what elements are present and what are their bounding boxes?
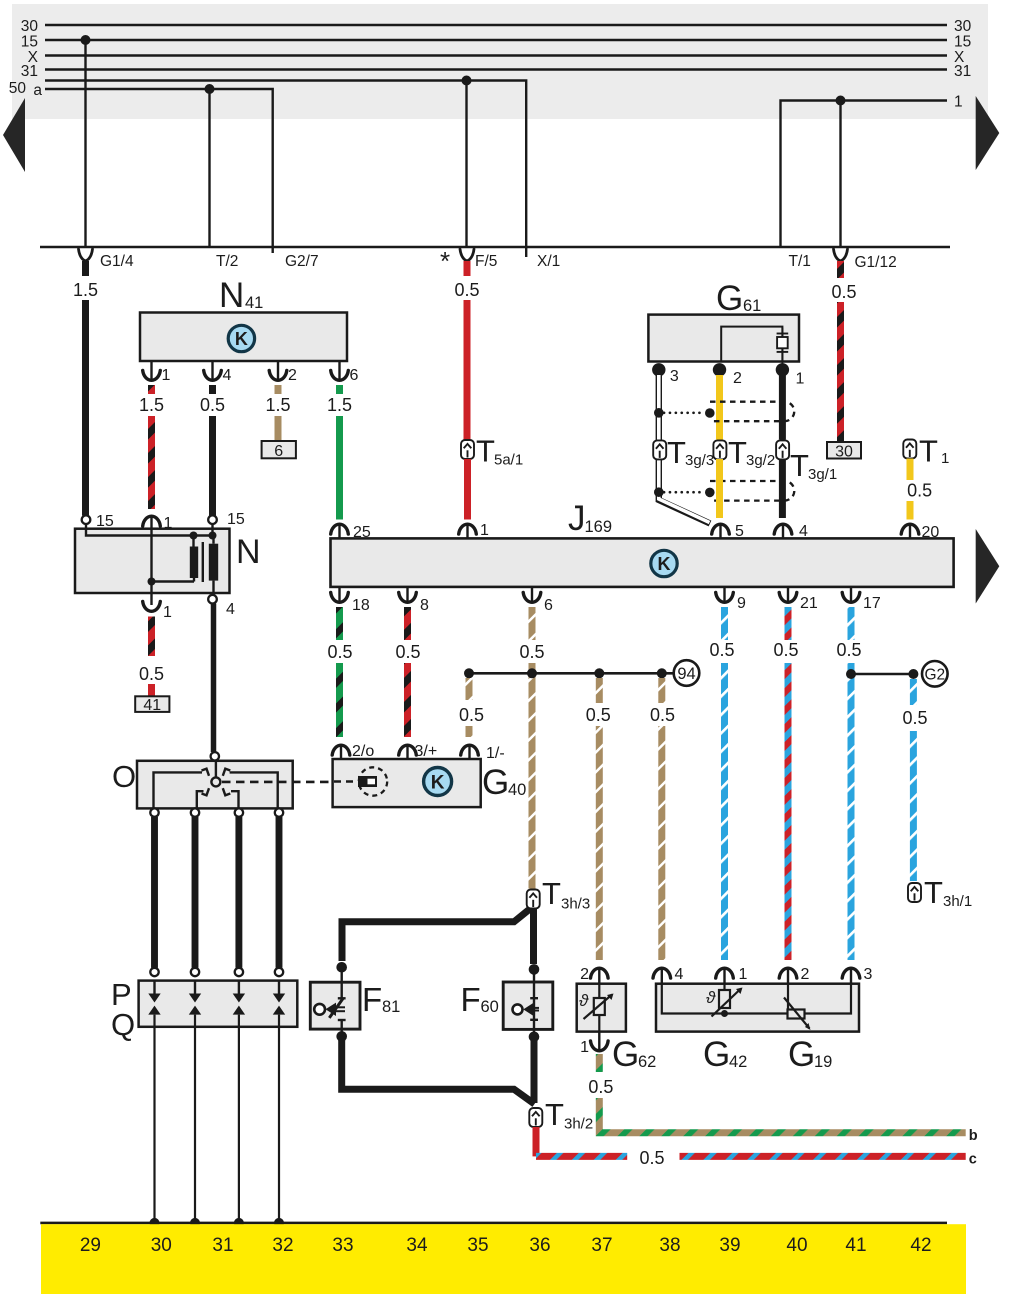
svg-text:0.5: 0.5 — [831, 282, 856, 302]
svg-text:J: J — [568, 499, 586, 538]
node on bus 1 — [836, 96, 846, 106]
terminal G1/4 — [79, 249, 93, 261]
svg-text:T: T — [924, 875, 943, 910]
O top terminal — [211, 752, 219, 760]
J169 pin 8 — [399, 592, 417, 602]
svg-text:c: c — [969, 1152, 977, 1168]
svg-text:15: 15 — [954, 34, 971, 51]
wire rd 0.5 F/5 to T5a/1 — [464, 261, 471, 276]
svg-text:3h/2: 3h/2 — [564, 1116, 593, 1133]
svg-text:3h/1: 3h/1 — [943, 893, 972, 910]
svg-text:X/1: X/1 — [537, 253, 560, 270]
ground 30 box — [827, 442, 861, 459]
wire gn/bk 0.5 J169.18 to G40 — [336, 607, 343, 640]
earth nodes — [150, 1218, 160, 1228]
svg-text:1.5: 1.5 — [139, 395, 164, 415]
svg-text:0.5: 0.5 — [639, 1148, 664, 1168]
node below F60 — [529, 1032, 540, 1043]
wire rd 0.5 T5a/1 to J169 pin1 — [464, 459, 471, 520]
G61 piezo element — [777, 328, 789, 364]
svg-text:3/+: 3/+ — [415, 743, 438, 760]
N terminal 15 left — [82, 515, 91, 524]
svg-text:a: a — [33, 82, 42, 99]
svg-text:0.5: 0.5 — [459, 705, 484, 725]
sensor bus node line — [469, 672, 674, 675]
svg-text:0.5: 0.5 — [519, 642, 544, 662]
svg-text:6: 6 — [544, 597, 553, 614]
svg-text:1: 1 — [739, 966, 748, 983]
svg-text:T: T — [667, 435, 686, 470]
terminal G1/12 — [834, 249, 848, 261]
svg-text:0.5: 0.5 — [454, 280, 479, 300]
svg-text:5: 5 — [735, 523, 744, 540]
svg-text:3h/3: 3h/3 — [561, 896, 590, 913]
svg-text:0.5: 0.5 — [650, 705, 675, 725]
wire rd/bk 0.5 J169.8 to G40 — [404, 607, 411, 640]
G61 pin 2 node — [713, 363, 726, 376]
track numbers 29-42 — [80, 1235, 932, 1256]
node on wire 17 — [846, 669, 856, 679]
wire G1/12 drop — [839, 101, 841, 248]
svg-text:N: N — [236, 533, 261, 571]
wire bk F60 to T3h/2 — [531, 1038, 538, 1103]
svg-text:41: 41 — [845, 1235, 866, 1256]
shield ring upper — [710, 402, 794, 422]
svg-text:6: 6 — [350, 367, 359, 384]
wire bl/wh 0.5 node to T3h/1 — [910, 679, 917, 705]
switch F81 — [310, 982, 360, 1029]
wire bk F81 loop bottom — [342, 1038, 535, 1104]
svg-text:T/1: T/1 — [789, 253, 811, 270]
svg-text:40: 40 — [508, 781, 526, 799]
svg-text:38: 38 — [659, 1235, 680, 1256]
svg-text:20: 20 — [922, 524, 940, 541]
G42 pin 1 — [716, 968, 734, 978]
svg-text:15: 15 — [227, 511, 245, 528]
wire bk 0.5 N41.4 to N — [209, 416, 216, 516]
svg-text:31: 31 — [212, 1235, 233, 1256]
sensor G62 — [577, 984, 626, 1032]
svg-text:0.5: 0.5 — [773, 640, 798, 660]
svg-text:15: 15 — [21, 34, 38, 51]
wire tn 1.5 N41.2 to 6 — [275, 416, 282, 440]
G42 internal — [662, 984, 851, 1029]
bus 1 — [781, 101, 948, 248]
left page arrow — [3, 98, 25, 172]
node on bus a — [205, 84, 215, 94]
svg-text:G: G — [703, 1035, 730, 1074]
J169 pin 18 — [331, 592, 349, 602]
G62 pin 1 — [591, 1041, 609, 1051]
wire rd T3h/2 to c — [533, 1127, 540, 1156]
O cap contacts — [202, 769, 231, 796]
ignition leads O to P — [151, 817, 158, 968]
svg-text:F: F — [461, 981, 481, 1018]
svg-text:34: 34 — [406, 1235, 428, 1256]
svg-text:1.5: 1.5 — [73, 280, 98, 300]
G19 pin 2 — [779, 968, 797, 978]
connector T3h/2 — [529, 1108, 542, 1127]
ground 6 box — [262, 441, 296, 458]
svg-text:61: 61 — [743, 297, 761, 315]
svg-text:0.5: 0.5 — [709, 640, 734, 660]
bus 30 — [45, 24, 947, 27]
wire ye T1 to J169 pin20 — [907, 501, 914, 520]
G40 pin 1/- — [461, 745, 479, 755]
switch F60 — [503, 982, 553, 1029]
svg-text:b: b — [969, 1128, 978, 1144]
svg-text:9: 9 — [737, 595, 746, 612]
svg-text:15: 15 — [96, 513, 114, 530]
svg-text:39: 39 — [719, 1235, 740, 1256]
svg-text:0.5: 0.5 — [907, 481, 932, 501]
G62 thermistor — [584, 984, 613, 1032]
wire G1/4 drop — [84, 40, 86, 247]
svg-text:50: 50 — [9, 80, 27, 97]
connector T1 — [903, 440, 916, 459]
svg-text:ϑ: ϑ — [706, 988, 716, 1007]
wire bl/rd 0.5 J169.21 to G19 — [785, 607, 792, 640]
wire rd/bk 0.5 G1/12 to 30 — [837, 261, 844, 278]
svg-text:19: 19 — [814, 1053, 832, 1071]
svg-text:3g/2: 3g/2 — [746, 452, 775, 469]
right page arrow mid — [976, 529, 1000, 604]
svg-text:81: 81 — [382, 998, 400, 1016]
P terminals — [150, 968, 158, 976]
svg-text:5a/1: 5a/1 — [494, 452, 523, 469]
svg-text:0.5: 0.5 — [139, 664, 164, 684]
svg-text:G: G — [612, 1035, 639, 1074]
svg-text:94: 94 — [677, 665, 695, 683]
svg-text:G2: G2 — [924, 667, 945, 684]
wire tn/wh 0.5 J169.6 to T3h/3 — [529, 607, 536, 640]
wire ye G61.2 upper — [716, 375, 723, 440]
wire F/5 drop — [465, 81, 467, 248]
node on bus 15 — [81, 35, 91, 45]
svg-text:G: G — [482, 763, 509, 802]
svg-text:42: 42 — [729, 1053, 747, 1071]
svg-text:2: 2 — [288, 367, 297, 384]
G40 pin 2/o — [332, 745, 350, 755]
svg-text:0.5: 0.5 — [327, 642, 352, 662]
N terminal 4 bottom — [208, 595, 217, 604]
svg-text:1: 1 — [796, 371, 805, 388]
N41 pin 1 — [150, 361, 152, 381]
N41 pin 6 — [338, 361, 340, 381]
G40 hall element — [359, 767, 387, 795]
top grey bus band — [12, 4, 988, 119]
yellow track band — [41, 1224, 966, 1294]
svg-text:30: 30 — [954, 18, 972, 35]
svg-text:N: N — [219, 276, 244, 315]
svg-text:0.5: 0.5 — [588, 1077, 613, 1097]
wire ye T1 upper — [907, 459, 914, 481]
ground 41 box — [135, 696, 169, 712]
wire tn/wh 0.5 node to G42 — [658, 678, 665, 703]
svg-text:G: G — [716, 279, 743, 318]
wire b tn/gn — [599, 1098, 965, 1133]
svg-text:30: 30 — [21, 18, 39, 35]
svg-text:41: 41 — [245, 294, 263, 312]
svg-text:T: T — [790, 448, 809, 483]
svg-text:33: 33 — [332, 1235, 353, 1256]
svg-text:*: * — [440, 246, 450, 276]
wire rd/bk 0.5 N.1 to 41 — [148, 617, 155, 657]
svg-text:Q: Q — [111, 1007, 135, 1042]
svg-text:T: T — [919, 434, 938, 469]
O bottom terminals — [150, 808, 158, 816]
wire bk G61.1 lower — [779, 459, 786, 518]
svg-text:25: 25 — [353, 524, 371, 541]
svg-text:1.5: 1.5 — [265, 395, 290, 415]
svg-text:1: 1 — [163, 604, 172, 621]
J169 pin 20 — [901, 524, 919, 534]
hall sender G40 — [333, 759, 481, 807]
N secondary winding — [209, 544, 218, 581]
svg-text:40: 40 — [786, 1235, 807, 1256]
svg-text:42: 42 — [910, 1235, 931, 1256]
G42 pin 4 — [653, 968, 671, 978]
svg-text:1: 1 — [941, 450, 949, 467]
svg-text:37: 37 — [591, 1235, 612, 1256]
J169 pin 4 — [774, 524, 792, 534]
svg-text:2: 2 — [801, 966, 810, 983]
connector T5a/1 — [461, 440, 474, 459]
dashed link O to G40 — [222, 781, 357, 784]
svg-text:O: O — [112, 759, 136, 794]
coil N — [75, 529, 230, 593]
J169 pin 17 — [842, 592, 860, 602]
connector T3h/1 — [908, 883, 921, 902]
wire rd/bk 1.5 N41.1 to N — [148, 416, 155, 509]
svg-text:18: 18 — [352, 597, 370, 614]
svg-text:0.5: 0.5 — [395, 642, 420, 662]
svg-text:T: T — [542, 876, 561, 911]
svg-text:T: T — [728, 435, 747, 470]
shield drain dots upper — [654, 408, 664, 418]
terminal F/5 — [460, 249, 474, 261]
wire tn/gn G62 stub — [596, 1054, 603, 1072]
G61 pin 3 node — [652, 363, 665, 376]
svg-text:3g/3: 3g/3 — [685, 452, 714, 469]
svg-text:1: 1 — [954, 94, 963, 111]
svg-text:31: 31 — [954, 63, 971, 80]
svg-text:0.5: 0.5 — [836, 640, 861, 660]
svg-text:32: 32 — [272, 1235, 293, 1256]
svg-text:4: 4 — [799, 523, 808, 540]
O internal wiring — [154, 772, 203, 808]
wire tn/wh 0.5 node to G62 — [596, 678, 603, 703]
svg-text:4: 4 — [223, 367, 232, 384]
wire c rd/bl — [536, 1153, 627, 1160]
svg-text:1/-: 1/- — [486, 745, 505, 762]
svg-text:G2/7: G2/7 — [285, 253, 319, 270]
N41 pin 4 — [211, 361, 213, 381]
J169 pin 6 — [523, 592, 541, 602]
svg-text:T/2: T/2 — [216, 253, 238, 270]
wire wh shield G61.3 — [659, 375, 710, 524]
svg-text:T: T — [545, 1097, 564, 1132]
N41 pin 2 — [277, 361, 279, 381]
connector T3h/3 — [527, 890, 540, 909]
svg-text:6: 6 — [274, 443, 283, 460]
svg-text:60: 60 — [481, 998, 499, 1016]
G62 pin 2 — [591, 968, 609, 978]
right page arrow top — [976, 96, 1000, 170]
spark gaps — [148, 981, 285, 1222]
svg-text:3g/1: 3g/1 — [808, 466, 837, 483]
N internal wiring — [86, 516, 214, 605]
svg-text:17: 17 — [863, 595, 881, 612]
svg-text:169: 169 — [585, 518, 613, 536]
bus X — [45, 54, 947, 57]
svg-text:2: 2 — [580, 966, 589, 983]
svg-text:30: 30 — [835, 444, 853, 461]
svg-text:F: F — [362, 981, 382, 1018]
bus 15 — [45, 39, 947, 42]
svg-text:2: 2 — [733, 370, 742, 387]
wire T/2 drop — [208, 89, 210, 247]
svg-text:F/5: F/5 — [475, 253, 497, 270]
svg-text:1: 1 — [480, 522, 489, 539]
svg-text:8: 8 — [420, 597, 429, 614]
svg-text:G1/4: G1/4 — [100, 253, 134, 270]
wire bk N.4 to O — [211, 604, 217, 753]
svg-text:21: 21 — [800, 595, 818, 612]
J169 pin 25 — [331, 524, 349, 534]
wire bl/wh 0.5 J169.17 to G19 — [848, 607, 855, 640]
svg-text:2/o: 2/o — [352, 743, 374, 760]
svg-text:1.5: 1.5 — [327, 395, 352, 415]
connector T3g/1 — [776, 440, 789, 459]
G40 pin 3/+ — [399, 745, 417, 755]
node G2 — [922, 661, 948, 687]
wire node to G2 — [851, 673, 913, 676]
connector T3g/3 — [653, 440, 666, 459]
wire ye G61.2 lower — [716, 459, 723, 518]
node on bus 50 — [462, 76, 472, 86]
svg-text:1: 1 — [162, 367, 171, 384]
sensors G42/G19 box — [656, 984, 859, 1032]
N primary winding — [190, 547, 198, 579]
svg-text:36: 36 — [529, 1235, 550, 1256]
svg-text:4: 4 — [226, 601, 235, 618]
N terminal 1 bottom — [143, 601, 161, 611]
node above F60 — [529, 964, 540, 975]
G61 pin 1 node — [776, 363, 789, 376]
svg-text:3: 3 — [670, 368, 679, 385]
shield drain dots lower — [654, 487, 664, 497]
svg-text:62: 62 — [638, 1053, 656, 1071]
svg-text:35: 35 — [467, 1235, 488, 1256]
N terminal 15 right — [208, 515, 217, 524]
svg-text:30: 30 — [151, 1235, 172, 1256]
J169 pin 1 — [459, 524, 477, 534]
svg-text:G: G — [788, 1035, 815, 1074]
svg-text:3: 3 — [864, 966, 873, 983]
svg-text:0.5: 0.5 — [586, 705, 611, 725]
wire tn/wh 0.5 node to G40 1/- — [466, 678, 473, 700]
svg-text:31: 31 — [21, 63, 38, 80]
svg-text:1: 1 — [164, 515, 173, 532]
O rotor — [215, 761, 217, 778]
J169 pin 9 — [716, 592, 734, 602]
bus 50 — [45, 81, 526, 258]
wire bl/wh 0.5 J169.9 to G42 — [721, 607, 728, 640]
shield ring lower — [710, 481, 794, 501]
J169 pin 21 — [779, 592, 797, 602]
bus 31 — [45, 68, 947, 71]
wire gn 1.5 N41.6 to J169 pin25 — [336, 416, 343, 520]
wire bk 1.5 G1/4 to N — [82, 261, 89, 276]
svg-text:0.5: 0.5 — [200, 395, 225, 415]
svg-text:41: 41 — [143, 697, 161, 714]
svg-text:T: T — [476, 434, 495, 469]
wire bk G61.1 upper — [779, 375, 786, 440]
connector T3g/2 — [713, 440, 726, 459]
wire bk T3h/3 junction — [342, 906, 534, 961]
svg-text:0.5: 0.5 — [902, 708, 927, 728]
N terminal 1 top — [143, 516, 161, 526]
node below F81 — [336, 1031, 347, 1042]
svg-text:ϑ: ϑ — [579, 991, 589, 1010]
svg-text:G1/12: G1/12 — [855, 254, 897, 271]
node above F81 — [336, 962, 347, 973]
node 94 — [674, 660, 700, 686]
terminal strip line — [40, 246, 950, 248]
svg-text:29: 29 — [80, 1235, 101, 1256]
earth strip line — [40, 1222, 947, 1225]
bus a — [45, 89, 273, 253]
svg-text:1: 1 — [580, 1039, 589, 1056]
J169 pin 5 — [712, 524, 730, 534]
G19 pin 3 — [842, 968, 860, 978]
svg-text:4: 4 — [675, 966, 684, 983]
